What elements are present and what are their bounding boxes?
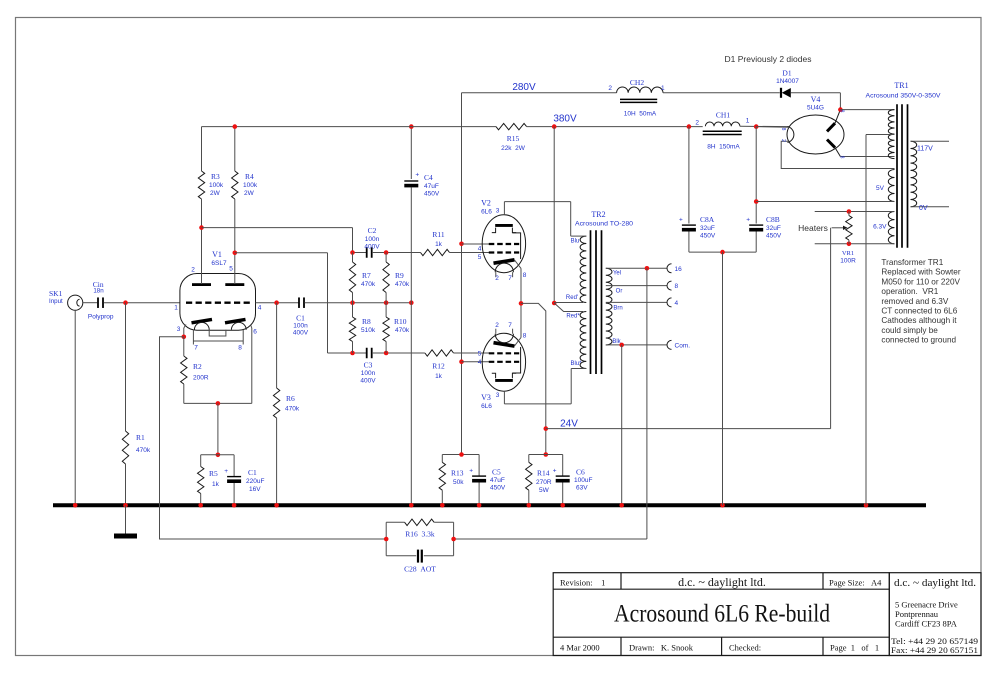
svg-text:C6: C6: [576, 468, 585, 477]
svg-text:47uF: 47uF: [490, 477, 505, 484]
svg-text:Pontprennau: Pontprennau: [895, 609, 939, 619]
svg-text:8H 150mA: 8H 150mA: [707, 144, 740, 151]
svg-text:V1: V1: [212, 250, 222, 259]
svg-text:3: 3: [177, 326, 181, 333]
svg-text:Heaters: Heaters: [798, 223, 828, 233]
svg-text:could simply be: could simply be: [881, 326, 938, 335]
svg-text:Fax: +44 29 20 657151: Fax: +44 29 20 657151: [891, 645, 978, 655]
svg-text:2: 2: [495, 275, 499, 282]
svg-text:Yel: Yel: [613, 271, 621, 277]
svg-text:450V: 450V: [424, 191, 440, 198]
svg-text:1: 1: [174, 305, 178, 312]
svg-text:470k: 470k: [361, 281, 376, 288]
svg-text:Acrosound 6L6 Re-build: Acrosound 6L6 Re-build: [614, 601, 830, 628]
svg-text:6SL7: 6SL7: [211, 260, 227, 267]
svg-text:470k: 470k: [136, 447, 151, 454]
svg-text:6L6: 6L6: [481, 209, 492, 216]
svg-text:0V: 0V: [919, 205, 928, 212]
svg-text:C28 AOT: C28 AOT: [404, 565, 436, 574]
svg-text:2W: 2W: [244, 190, 255, 197]
svg-text:2: 2: [495, 322, 499, 329]
svg-text:22k 2W: 22k 2W: [501, 145, 526, 152]
svg-text:450V: 450V: [700, 233, 716, 240]
svg-text:+: +: [553, 467, 557, 474]
svg-text:R2: R2: [193, 362, 202, 371]
svg-text:Acrosound TO-280: Acrosound TO-280: [575, 221, 633, 228]
svg-text:V3: V3: [481, 393, 491, 402]
svg-text:50k: 50k: [453, 479, 464, 486]
svg-text:24V: 24V: [560, 419, 578, 430]
svg-text:2: 2: [608, 85, 612, 92]
svg-text:4: 4: [258, 305, 262, 312]
svg-text:7: 7: [194, 345, 198, 352]
svg-text:removed and 6.3V: removed and 6.3V: [881, 297, 948, 306]
svg-text:TR1: TR1: [894, 81, 908, 90]
svg-text:7: 7: [508, 275, 512, 282]
svg-text:C8B: C8B: [766, 215, 780, 224]
svg-text:8: 8: [523, 333, 527, 340]
svg-text:3: 3: [496, 392, 500, 399]
svg-text:5: 5: [478, 351, 482, 358]
svg-text:Com.: Com.: [675, 342, 691, 349]
svg-text:Input: Input: [49, 298, 63, 305]
svg-text:2: 2: [695, 120, 699, 127]
svg-text:2: 2: [191, 267, 195, 274]
svg-text:C4: C4: [424, 173, 433, 182]
svg-text:Drawn: K. Snook: Drawn: K. Snook: [629, 643, 694, 653]
svg-text:4: 4: [675, 300, 679, 307]
svg-text:1: 1: [661, 85, 665, 92]
svg-text:R6: R6: [286, 394, 295, 403]
svg-text:d.c. ~ daylight ltd.: d.c. ~ daylight ltd.: [894, 578, 976, 589]
svg-text:C1: C1: [248, 468, 257, 477]
svg-text:100k: 100k: [209, 182, 224, 189]
svg-text:450V: 450V: [766, 233, 782, 240]
svg-text:R11: R11: [432, 230, 444, 239]
svg-text:M050 for 110 or 220V: M050 for 110 or 220V: [881, 277, 960, 286]
svg-text:D1 Previously 2 diodes: D1 Previously 2 diodes: [725, 54, 812, 64]
svg-text:C5: C5: [492, 468, 501, 477]
svg-text:Red*: Red*: [566, 314, 580, 320]
svg-text:C1: C1: [296, 314, 305, 323]
svg-text:R7: R7: [362, 271, 371, 280]
svg-text:Or: Or: [616, 289, 623, 295]
svg-text:2: 2: [780, 139, 786, 142]
svg-text:100n: 100n: [365, 236, 380, 243]
svg-text:100uF: 100uF: [574, 477, 592, 484]
svg-text:4: 4: [478, 246, 482, 253]
svg-text:100n: 100n: [361, 370, 376, 377]
svg-text:400V: 400V: [360, 378, 376, 385]
svg-text:100R: 100R: [840, 258, 856, 265]
svg-text:8: 8: [675, 283, 679, 290]
svg-text:4 Mar 2000: 4 Mar 2000: [560, 643, 600, 653]
svg-text:5: 5: [478, 254, 482, 261]
svg-text:6: 6: [253, 329, 257, 336]
svg-text:117V: 117V: [917, 146, 933, 153]
svg-text:operation. VR1: operation. VR1: [881, 287, 938, 296]
svg-text:380V: 380V: [553, 114, 577, 125]
svg-text:400V: 400V: [293, 330, 309, 337]
svg-text:TR2: TR2: [591, 210, 605, 219]
svg-text:280V: 280V: [512, 82, 536, 93]
svg-text:C8A: C8A: [700, 215, 715, 224]
svg-text:47uF: 47uF: [424, 183, 439, 190]
svg-text:Cathodes although it: Cathodes although it: [881, 316, 957, 325]
svg-text:+: +: [469, 467, 473, 474]
svg-text:Acrosound 350V-0-350V: Acrosound 350V-0-350V: [866, 93, 942, 100]
svg-text:R4: R4: [245, 172, 254, 181]
svg-text:5W: 5W: [539, 487, 550, 494]
svg-text:R13: R13: [451, 469, 464, 478]
svg-text:1N4007: 1N4007: [776, 78, 799, 85]
svg-text:+: +: [679, 216, 683, 223]
svg-text:2W: 2W: [210, 190, 221, 197]
svg-text:CH1: CH1: [716, 111, 730, 120]
svg-text:R1: R1: [136, 433, 145, 442]
svg-text:Transformer TR1: Transformer TR1: [881, 258, 943, 267]
svg-text:16V: 16V: [249, 486, 261, 493]
svg-text:Blu*: Blu*: [570, 361, 582, 367]
svg-text:220uF: 220uF: [246, 478, 264, 485]
svg-text:V2: V2: [481, 199, 491, 208]
svg-text:5U4G: 5U4G: [807, 105, 824, 112]
svg-text:63V: 63V: [576, 485, 588, 492]
svg-text:Blu: Blu: [571, 239, 580, 245]
svg-text:32uF: 32uF: [766, 225, 781, 232]
svg-text:V4: V4: [811, 95, 821, 104]
svg-text:1k: 1k: [435, 373, 443, 380]
svg-text:8: 8: [839, 156, 845, 159]
svg-text:R12: R12: [432, 362, 445, 371]
svg-text:6L6: 6L6: [481, 403, 492, 410]
svg-text:Polyprop: Polyprop: [88, 314, 114, 321]
svg-text:7: 7: [508, 322, 512, 329]
svg-text:470k: 470k: [395, 327, 410, 334]
svg-text:Revision: 1: Revision: 1: [560, 578, 605, 588]
svg-text:Cardiff CF23 8PA: Cardiff CF23 8PA: [895, 619, 958, 629]
svg-text:510k: 510k: [361, 327, 376, 334]
svg-text:Replaced with Sowter: Replaced with Sowter: [881, 268, 960, 277]
svg-text:8: 8: [238, 345, 242, 352]
svg-text:32uF: 32uF: [700, 225, 715, 232]
svg-text:10H 50mA: 10H 50mA: [624, 111, 657, 118]
svg-text:470k: 470k: [285, 406, 300, 413]
svg-text:8: 8: [839, 110, 845, 113]
svg-text:Page Size: A4: Page Size: A4: [829, 578, 882, 588]
svg-text:+: +: [746, 216, 750, 223]
svg-text:8: 8: [780, 128, 786, 131]
svg-text:200R: 200R: [193, 375, 209, 382]
svg-text:R3: R3: [211, 172, 220, 181]
svg-text:D1: D1: [782, 69, 791, 78]
svg-text:+: +: [224, 468, 228, 475]
svg-text:R15: R15: [507, 134, 520, 143]
svg-text:R10: R10: [394, 317, 407, 326]
svg-text:1k: 1k: [435, 241, 443, 248]
svg-text:Page 1 of 1: Page 1 of 1: [830, 643, 879, 653]
svg-text:d.c. ~ daylight ltd.: d.c. ~ daylight ltd.: [678, 575, 766, 589]
svg-text:5V: 5V: [876, 185, 885, 192]
svg-text:8: 8: [523, 272, 527, 279]
svg-text:Brn: Brn: [613, 306, 622, 312]
svg-text:100n: 100n: [293, 323, 308, 330]
svg-text:Checked:: Checked:: [729, 643, 761, 653]
svg-text:5: 5: [229, 266, 233, 273]
svg-text:400V: 400V: [364, 244, 380, 251]
svg-text:+: +: [415, 172, 419, 179]
svg-text:18n: 18n: [93, 288, 104, 295]
svg-text:VR1: VR1: [842, 250, 854, 257]
svg-text:Blk: Blk: [612, 339, 621, 345]
svg-text:5 Greenacre Drive: 5 Greenacre Drive: [895, 600, 958, 610]
svg-text:R16 3.3k: R16 3.3k: [405, 530, 435, 539]
svg-text:1k: 1k: [212, 481, 220, 488]
svg-text:R5: R5: [209, 469, 218, 478]
svg-text:C3: C3: [364, 361, 373, 370]
svg-text:270R: 270R: [536, 479, 552, 486]
svg-text:CH2: CH2: [630, 78, 644, 87]
svg-text:6.3V: 6.3V: [873, 224, 887, 231]
svg-text:CT connected to 6L6: CT connected to 6L6: [881, 307, 957, 316]
svg-text:connected to ground: connected to ground: [881, 336, 956, 345]
svg-text:R14: R14: [537, 469, 550, 478]
svg-text:100k: 100k: [243, 182, 258, 189]
svg-text:R8: R8: [362, 317, 371, 326]
svg-text:SK1: SK1: [49, 289, 63, 298]
svg-text:1: 1: [746, 118, 750, 125]
svg-text:450V: 450V: [490, 485, 506, 492]
svg-text:470k: 470k: [395, 281, 410, 288]
svg-text:R9: R9: [395, 271, 404, 280]
svg-text:C2: C2: [368, 226, 377, 235]
svg-text:4: 4: [478, 359, 482, 366]
svg-text:Red': Red': [566, 295, 578, 301]
svg-text:3: 3: [496, 208, 500, 215]
svg-text:16: 16: [675, 266, 683, 273]
